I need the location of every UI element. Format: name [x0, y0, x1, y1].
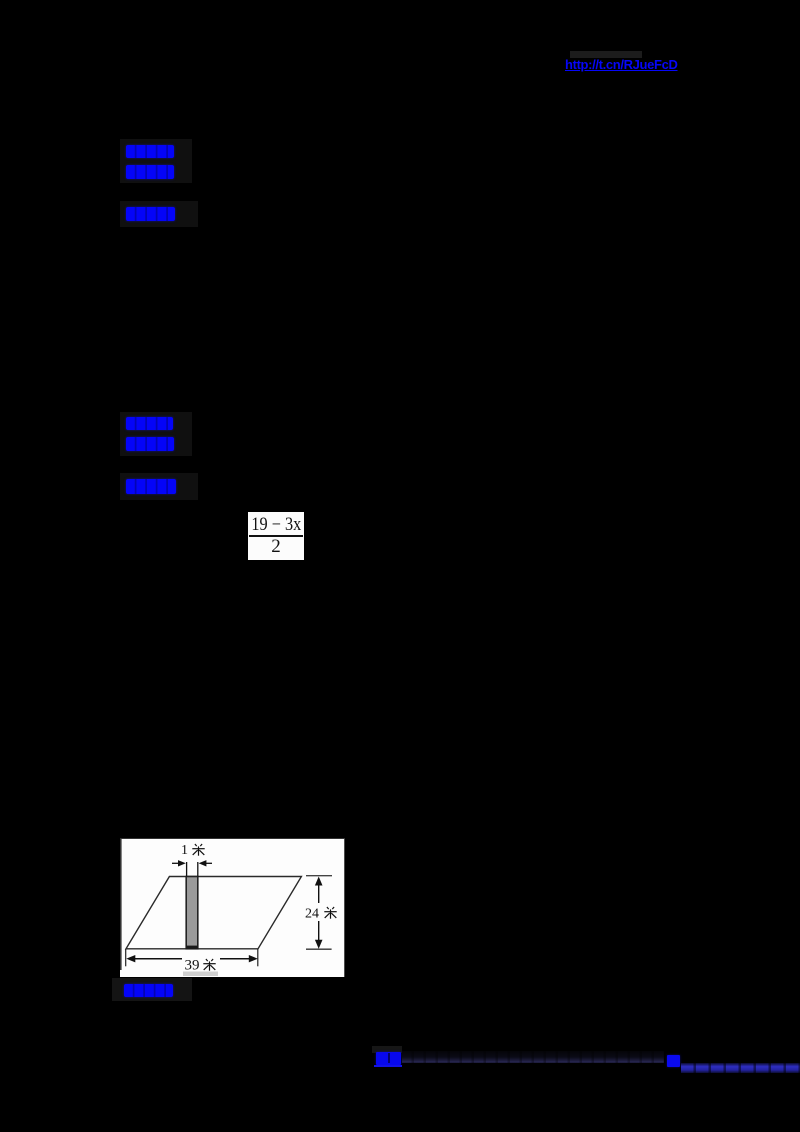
halo around dianping: [112, 978, 192, 1001]
URL link top right: [565, 58, 695, 74]
fraction image (19-3x)/2: [248, 512, 305, 560]
svg-text:24: 24: [305, 907, 319, 922]
24m dimension: [306, 875, 332, 877]
39m dimension: [125, 949, 127, 966]
label fenxi 2: [126, 437, 174, 451]
label jieda 2: [126, 479, 176, 495]
parallelogram: [126, 877, 301, 949]
bottom row: bright blue two chars with underline: [372, 1046, 402, 1053]
halo around jieda 1: [120, 201, 198, 227]
gray path strip: [186, 877, 198, 949]
halo around second label block: [120, 412, 192, 456]
ghost of black header text above URL: [570, 51, 642, 58]
label jieda 1: [126, 207, 175, 222]
diagram image: [120, 837, 345, 977]
svg-text:1: 1: [181, 843, 188, 858]
bright blue char before wrap: [667, 1055, 680, 1067]
dark navy band (dark link text): [402, 1051, 664, 1063]
label kaodian 1: [126, 145, 174, 159]
label kaodian 2: [126, 417, 173, 431]
label fenxi 1: [126, 165, 174, 179]
faint smudge below 39mi: [183, 972, 218, 977]
halo around jieda 2: [120, 473, 198, 500]
second-line blue dashes to right edge: [681, 1063, 800, 1073]
strip guide lines above: [186, 862, 188, 877]
halo around first label block: [120, 139, 192, 183]
white background of scanned figure: [120, 838, 344, 977]
svg-text:39: 39: [185, 958, 200, 974]
1m arrows: [172, 862, 181, 864]
label dianping: [124, 984, 173, 998]
